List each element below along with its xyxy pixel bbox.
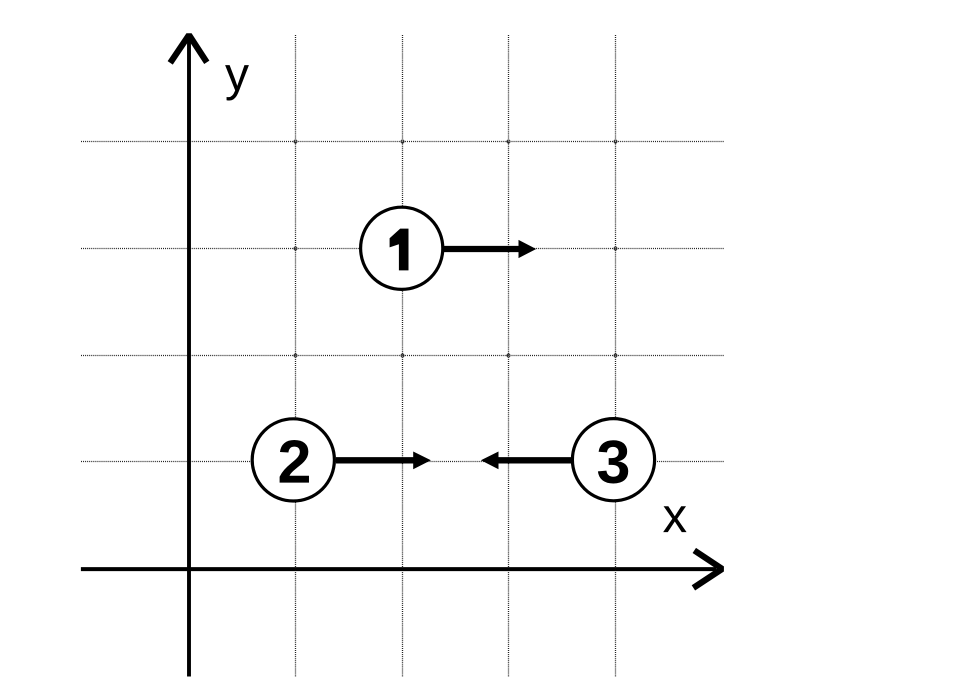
object 2 label "2" (280, 440, 309, 483)
gridline vertical 1 (295, 35, 297, 677)
velocity arrow of object 2 head (413, 452, 431, 470)
y axis arrowhead (170, 35, 207, 63)
label x (663, 506, 686, 532)
velocity arrow of object 2 shaft (336, 457, 415, 463)
object 1 circle (361, 207, 443, 289)
x axis arrowhead (693, 550, 722, 588)
velocity arrow of object 1 head (519, 240, 537, 258)
velocity arrow of object 3 shaft (497, 457, 571, 463)
object 1 label "1" (390, 229, 409, 271)
gridline horizontal 4 (81, 461, 724, 463)
gridline intersection markers (294, 140, 617, 463)
velocity arrow of object 3 head (481, 452, 499, 470)
gridline horizontal 2 (81, 248, 724, 250)
gridline horizontal 3 (81, 355, 724, 357)
gridline vertical 3 (508, 35, 510, 677)
gridline vertical 4 (615, 35, 617, 677)
velocity arrow of object 1 shaft (444, 246, 521, 252)
x axis (81, 567, 716, 571)
y axis (187, 38, 191, 677)
label y (225, 65, 249, 100)
object 2 circle (252, 419, 334, 501)
gridline vertical 2 (402, 35, 404, 677)
object 3 label "3" (598, 440, 628, 483)
gridline horizontal 1 (81, 141, 724, 143)
object 3 circle (572, 419, 654, 501)
